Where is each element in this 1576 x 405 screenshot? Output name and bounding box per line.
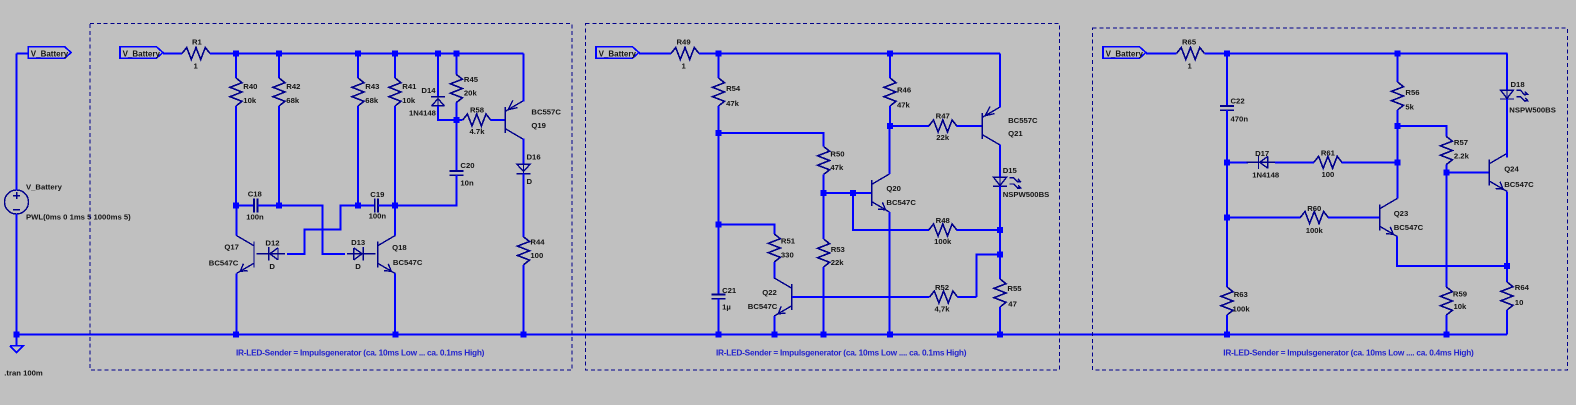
svg-text:IR-LED-Sender = Impulsgenerato: IR-LED-Sender = Impulsgenerator (ca. 10m…: [236, 347, 485, 357]
wire R60 row: [1227, 217, 1300, 219]
svg-text:R43: R43: [365, 82, 379, 91]
svg-text:R51: R51: [781, 237, 796, 246]
net flag V_Battery (source side): [28, 47, 71, 58]
svg-text:R64: R64: [1515, 283, 1530, 292]
node junction: [887, 123, 893, 129]
node junction: [771, 332, 777, 338]
resistor R57: [1440, 137, 1452, 165]
node junction: [887, 332, 893, 338]
resistor R52: [930, 291, 958, 303]
svg-text:NSPW500BS: NSPW500BS: [1003, 190, 1050, 199]
svg-text:R40: R40: [243, 82, 257, 91]
wire: [999, 230, 1001, 255]
dashed box block 3: [1093, 28, 1568, 370]
svg-text:R48: R48: [936, 216, 951, 225]
svg-text:BC547C: BC547C: [886, 198, 916, 207]
node junction: [453, 51, 459, 57]
resistor R51: [768, 234, 780, 262]
svg-text:100k: 100k: [1233, 304, 1251, 313]
svg-text:100n: 100n: [369, 212, 387, 221]
svg-text:R41: R41: [402, 82, 417, 91]
resistor R46: [889, 54, 891, 79]
svg-text:1: 1: [194, 61, 199, 70]
node junction: [997, 332, 1003, 338]
svg-text:R50: R50: [830, 150, 844, 159]
resistor R55: [999, 255, 1001, 279]
svg-text:Q18: Q18: [392, 243, 407, 252]
wire: [1226, 162, 1228, 217]
svg-text:10: 10: [1515, 298, 1524, 307]
wire: [1398, 126, 1447, 137]
node junction: [716, 51, 722, 57]
transistor Q18 BC547C: [378, 236, 396, 274]
wire R48 row: [853, 193, 929, 230]
resistor R65: [1177, 48, 1205, 60]
node junction: [821, 332, 827, 338]
node junction: [716, 130, 722, 136]
node junction: [997, 227, 1003, 233]
svg-text:R45: R45: [464, 75, 479, 84]
resistor R49: [671, 48, 699, 60]
resistor R60: [1300, 212, 1328, 224]
svg-text:V_Battery: V_Battery: [31, 49, 69, 58]
svg-text:R59: R59: [1453, 289, 1467, 298]
svg-text:100n: 100n: [246, 212, 264, 221]
wire: [1275, 161, 1314, 163]
wire: [438, 106, 456, 120]
svg-text:D17: D17: [1255, 149, 1269, 158]
resistor R56: [1397, 54, 1399, 83]
svg-text:D12: D12: [265, 239, 279, 248]
svg-text:R61: R61: [1321, 149, 1336, 158]
wire emitter Q23 to R64 node: [1397, 237, 1507, 266]
node junction: [1224, 332, 1230, 338]
wire collector Q20: [888, 126, 890, 174]
svg-text:10k: 10k: [243, 96, 257, 105]
wire: [999, 186, 1001, 230]
svg-text:D: D: [355, 262, 361, 271]
svg-text:100k: 100k: [934, 237, 952, 246]
svg-text:22k: 22k: [831, 258, 845, 267]
svg-text:V_Battery: V_Battery: [1106, 49, 1144, 58]
wire collector Q18: [394, 206, 396, 236]
svg-text:BC547C: BC547C: [393, 258, 423, 267]
svg-text:NSPW500BS: NSPW500BS: [1509, 106, 1556, 115]
svg-text:68k: 68k: [286, 96, 300, 105]
LED D15 NSPW500BS: [994, 177, 1007, 185]
node junction: [1443, 169, 1449, 175]
node junction: [1224, 215, 1230, 221]
transistor Q23 BC547C: [1380, 199, 1398, 237]
wire top rail block 3: [1204, 53, 1507, 55]
wire base Q24: [1446, 171, 1489, 173]
node junction: [1395, 51, 1401, 57]
svg-text:D15: D15: [1003, 166, 1018, 175]
svg-text:BC557C: BC557C: [1008, 116, 1038, 125]
node junction at source/ground: [14, 332, 20, 338]
wire base Q22 to R52: [792, 296, 930, 298]
svg-text:Q24: Q24: [1504, 164, 1519, 173]
svg-text:R44: R44: [530, 238, 545, 247]
svg-text:R63: R63: [1234, 290, 1248, 299]
wire emitter Q18: [394, 274, 396, 335]
transistor Q17 BC547C: [236, 236, 254, 274]
capacitor C20: [455, 120, 457, 171]
wire: [718, 133, 720, 225]
node junction: [1443, 332, 1449, 338]
resistor R50: [818, 147, 830, 175]
svg-text:BC547C: BC547C: [1504, 180, 1534, 189]
wire collector Q19 to D16: [523, 139, 525, 165]
wire cross-couple C18 to D13: [279, 206, 345, 254]
resistor R63: [1226, 218, 1228, 288]
resistor R48: [929, 224, 957, 236]
wire D18 top from rail: [1506, 54, 1508, 91]
svg-text:PWL(0ms 0 1ms 5 1000ms 5): PWL(0ms 0 1ms 5 1000ms 5): [26, 213, 131, 222]
svg-text:D14: D14: [421, 86, 436, 95]
node junction: [435, 51, 441, 57]
svg-text:V_Battery: V_Battery: [123, 49, 161, 58]
resistor R47: [890, 125, 929, 127]
node junction: [1504, 263, 1510, 269]
wire: [824, 192, 853, 194]
node junction: [393, 332, 399, 338]
svg-text:100: 100: [1321, 170, 1334, 179]
node junction: [887, 51, 893, 57]
svg-text:C18: C18: [248, 190, 263, 199]
svg-text:5k: 5k: [1405, 103, 1414, 112]
wire emitter Q17: [235, 274, 237, 335]
wire: [1146, 53, 1177, 55]
svg-text:BC547C: BC547C: [748, 302, 778, 311]
wire collector Q17: [235, 206, 237, 236]
svg-text:C21: C21: [722, 286, 737, 295]
node junction: [997, 252, 1003, 258]
wire R52 up to node: [976, 255, 1000, 297]
capacitor C19: [358, 205, 375, 207]
node junction: [233, 332, 239, 338]
diode D12: [257, 247, 285, 261]
wire: [523, 174, 525, 237]
resistor R44: [518, 237, 530, 265]
dashed box block 2: [586, 24, 1060, 371]
dashed box block 1: [90, 24, 572, 371]
resistor R40: [235, 54, 237, 79]
wire: [1227, 161, 1248, 163]
node junction: [233, 51, 239, 57]
LED D18 NSPW500BS: [1501, 90, 1514, 98]
svg-text:.tran 100m: .tran 100m: [4, 369, 43, 378]
voltage source V_Battery: [5, 190, 29, 214]
svg-text:47: 47: [1008, 300, 1017, 309]
resistor R45: [455, 54, 457, 75]
wire bottom ground bus: [17, 334, 1508, 336]
resistor R42: [278, 54, 280, 79]
svg-text:Q22: Q22: [762, 288, 777, 297]
svg-text:D18: D18: [1511, 80, 1526, 89]
svg-text:R65: R65: [1182, 37, 1197, 46]
svg-text:BC547C: BC547C: [209, 258, 239, 267]
wire: [1506, 99, 1508, 157]
net flag V_Battery (block 3): [1103, 47, 1146, 58]
wire: [16, 54, 18, 191]
svg-text:1: 1: [1188, 61, 1193, 70]
wire: [719, 133, 824, 147]
svg-text:Q23: Q23: [1394, 209, 1409, 218]
svg-text:R52: R52: [935, 283, 949, 292]
wire: [163, 53, 182, 55]
svg-text:100k: 100k: [1306, 226, 1324, 235]
svg-text:IR-LED-Sender = Impulsgenerato: IR-LED-Sender = Impulsgenerator (ca. 10m…: [1223, 347, 1474, 357]
svg-text:V_Battery: V_Battery: [26, 183, 63, 192]
node junction: [392, 203, 398, 209]
transistor Q21 BC557C: [982, 106, 1000, 145]
wire top rail block 1: [210, 53, 524, 55]
svg-text:R56: R56: [1405, 88, 1419, 97]
svg-text:D16: D16: [527, 153, 541, 162]
svg-text:100: 100: [530, 251, 543, 260]
diode D13: [347, 247, 375, 261]
svg-text:D13: D13: [351, 238, 365, 247]
svg-text:R55: R55: [1007, 284, 1022, 293]
resistor R53: [823, 193, 825, 239]
svg-text:1N4148: 1N4148: [409, 109, 437, 118]
svg-text:Q19: Q19: [531, 121, 546, 130]
node junction: [1395, 159, 1401, 165]
node junction: [453, 117, 459, 123]
diode D17: [1247, 155, 1275, 169]
node junction: [1395, 123, 1401, 129]
svg-text:R49: R49: [677, 37, 691, 46]
capacitor C22: [1226, 54, 1228, 106]
svg-text:10k: 10k: [1454, 302, 1468, 311]
net flag V_Battery (block 1): [120, 47, 163, 58]
svg-text:Q21: Q21: [1008, 129, 1023, 138]
transistor Q19 BC557C: [505, 100, 523, 139]
wire: [639, 53, 671, 55]
svg-text:470n: 470n: [1231, 115, 1249, 124]
svg-text:47k: 47k: [830, 163, 844, 172]
wire emitter Q24: [1506, 191, 1508, 266]
node junction: [821, 190, 827, 196]
wire: [719, 225, 775, 234]
svg-text:R46: R46: [897, 86, 911, 95]
wire: [16, 214, 18, 335]
resistor R1: [182, 48, 210, 60]
capacitor C21: [718, 225, 720, 295]
svg-text:68k: 68k: [365, 96, 379, 105]
wire: [1397, 126, 1399, 199]
svg-text:D: D: [527, 177, 533, 186]
svg-text:C20: C20: [460, 161, 474, 170]
resistor R54: [718, 54, 720, 79]
svg-text:R53: R53: [831, 245, 845, 254]
wire emitter Q19 to rail: [523, 54, 525, 102]
svg-text:10k: 10k: [402, 96, 416, 105]
wire top rail block 2: [699, 53, 1000, 55]
wire cross-couple C19 to D12: [287, 206, 358, 254]
svg-text:R1: R1: [192, 37, 203, 46]
svg-text:R57: R57: [1454, 138, 1468, 147]
wire emitter Q22: [773, 316, 775, 335]
svg-text:D: D: [269, 262, 275, 271]
wire base Q20: [853, 192, 872, 194]
svg-text:IR-LED-Sender = Impulsgenerato: IR-LED-Sender = Impulsgenerator (ca. 10m…: [716, 347, 967, 357]
node junction: [1224, 51, 1230, 57]
node junction: [355, 203, 361, 209]
node junction: [716, 222, 722, 228]
svg-text:22k: 22k: [936, 133, 950, 142]
svg-text:C19: C19: [370, 190, 384, 199]
resistor R41: [394, 54, 396, 79]
resistor R58: [456, 119, 462, 121]
ground: [10, 335, 23, 353]
wire C20 bottom to node: [395, 175, 456, 205]
svg-text:1N4148: 1N4148: [1252, 171, 1280, 180]
svg-text:47k: 47k: [726, 99, 740, 108]
svg-text:R60: R60: [1307, 204, 1321, 213]
node junction: [392, 51, 398, 57]
transistor Q22 BC547C: [774, 278, 792, 316]
svg-text:R47: R47: [936, 112, 950, 121]
wire emitter Q20: [888, 212, 890, 335]
node junction: [716, 332, 722, 338]
svg-text:BC547C: BC547C: [1394, 223, 1424, 232]
svg-text:C22: C22: [1231, 96, 1245, 105]
svg-text:10n: 10n: [460, 179, 474, 188]
node junction: [521, 332, 527, 338]
svg-text:2.2k: 2.2k: [1454, 152, 1470, 161]
svg-text:1: 1: [682, 61, 687, 70]
svg-text:47k: 47k: [897, 101, 911, 110]
node junction: [233, 203, 239, 209]
transistor Q24 BC547C: [1489, 153, 1507, 191]
wire collector Q21 to D15: [999, 145, 1001, 178]
svg-text:R54: R54: [726, 84, 741, 93]
diode D16: [517, 164, 530, 171]
wire emitter Q21 to rail: [999, 54, 1001, 108]
resistor R64: [1506, 266, 1508, 282]
diode D14: [437, 54, 439, 97]
svg-text:4,7k: 4,7k: [935, 304, 951, 313]
resistor R59: [1445, 172, 1447, 287]
resistor R43: [357, 54, 359, 79]
svg-text:Q20: Q20: [886, 184, 901, 193]
svg-text:1µ: 1µ: [722, 303, 731, 312]
node junction: [276, 203, 282, 209]
svg-text:R42: R42: [286, 82, 300, 91]
svg-text:330: 330: [781, 251, 794, 260]
svg-text:20k: 20k: [464, 89, 478, 98]
node junction: [1224, 159, 1230, 165]
node junction: [850, 190, 856, 196]
svg-text:Q17: Q17: [224, 243, 239, 252]
wire stub to flag: [17, 53, 29, 55]
svg-text:4.7k: 4.7k: [470, 127, 486, 136]
net flag V_Battery (block 2): [596, 47, 639, 58]
node junction: [355, 51, 361, 57]
resistor R61: [1314, 156, 1342, 168]
transistor Q20 BC547C: [872, 174, 890, 212]
svg-text:R58: R58: [470, 106, 485, 115]
node junction: [276, 51, 282, 57]
svg-text:V_Battery: V_Battery: [599, 49, 637, 58]
capacitor C18: [236, 205, 254, 207]
svg-text:BC557C: BC557C: [531, 108, 561, 117]
